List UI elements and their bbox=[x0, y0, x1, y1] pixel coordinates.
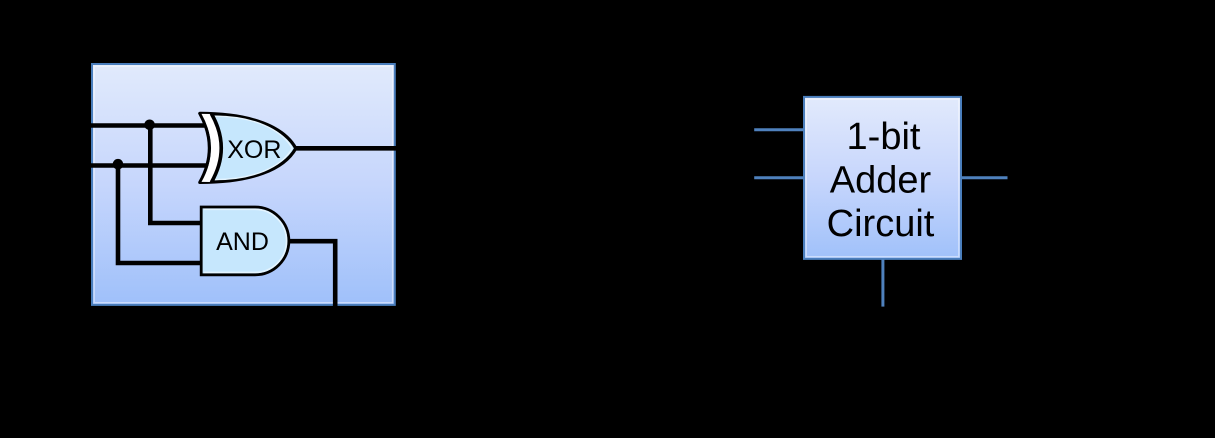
and gate AND1 body bbox=[201, 207, 289, 275]
xor gate XOR1 body bbox=[200, 113, 296, 182]
svg-text:AND: AND bbox=[216, 228, 269, 256]
wire input B (second horizontal) bbox=[91, 163, 206, 168]
svg-text:Adder: Adder bbox=[830, 160, 932, 202]
pin stub output sum bbox=[961, 176, 1008, 179]
wire B branch down to AND bottom input bbox=[118, 166, 204, 264]
wire input A (top horizontal) bbox=[91, 123, 206, 128]
wire A branch down to AND top input bbox=[150, 126, 204, 224]
1-bit adder block U1 bbox=[804, 97, 961, 259]
and gate inner highlight bbox=[204, 209, 287, 272]
wire XOR output (Sum) bbox=[293, 146, 397, 151]
xor gate input arc bbox=[211, 114, 221, 183]
node A junction dot bbox=[144, 120, 155, 131]
wire AND output (Carry) bbox=[287, 241, 335, 306]
svg-text:Circuit: Circuit bbox=[827, 203, 935, 245]
svg-text:XOR: XOR bbox=[227, 136, 281, 164]
pin stub input B bbox=[754, 176, 804, 179]
node B junction dot bbox=[113, 159, 124, 170]
pin stub carry out bbox=[881, 259, 884, 307]
xor gate white gap crescent bbox=[202, 114, 222, 182]
pin stub input A bbox=[754, 128, 804, 131]
svg-text:1-bit: 1-bit bbox=[847, 116, 921, 158]
xor gate inner highlight bbox=[215, 116, 292, 179]
half-adder enclosure box bbox=[92, 64, 395, 305]
